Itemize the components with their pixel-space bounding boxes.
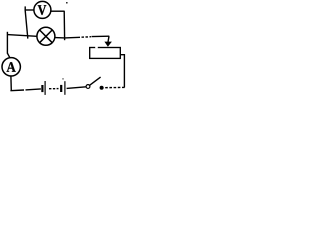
wire rheostat right terminal down [121,55,125,88]
lamp L1 [37,27,55,45]
wire left parallel branch vertical [25,10,28,37]
speck near battery [62,78,63,79]
wire bottom-left to battery [10,89,41,91]
wire ammeter bottom [10,76,12,90]
rheostat R1 body [90,47,121,59]
ammeter A [2,58,20,76]
switch pivot [86,85,90,89]
wire V-left stub [25,6,34,10]
battery dashes (more cells) [49,88,59,90]
switch contact dot [100,86,104,90]
wire bottom-right dashed [103,86,124,88]
speck near top right [66,2,68,3]
wire battery to switch [67,87,87,89]
wire V-right [51,10,64,12]
battery cell 2 [61,81,65,95]
voltmeter V [34,1,51,18]
wire right parallel branch vertical [63,11,65,38]
battery cell 1 [42,81,45,95]
wire lamp-right [55,38,65,41]
switch lever [89,77,100,85]
wire left corner down to ammeter [7,32,9,58]
wire top run to rheostat [65,36,110,38]
wire lamp-left horizontal [7,35,37,39]
rheostat slider arrow [104,36,112,47]
